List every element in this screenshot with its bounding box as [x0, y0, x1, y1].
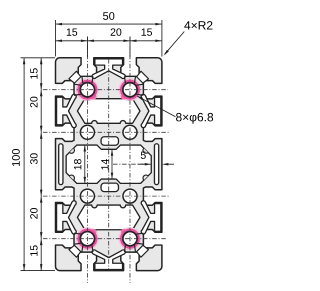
dimension chain 15/20/15 top — [56, 40, 162, 42]
centerline vertical x=35 — [129, 37, 131, 284]
annotation 8x6.8 — [138, 96, 176, 117]
hole phi6.8 at (15,85) with pink highlight — [74, 228, 98, 252]
centerline vertical x=15 — [86, 37, 88, 284]
hole phi6.8 at (35,15) with pink highlight — [119, 76, 143, 100]
extension lines left — [21, 57, 56, 59]
rounded chamber above octagon (row 35) — [101, 137, 118, 146]
right-edge chamber y15-35 — [141, 94, 161, 127]
centerline horizontal y=238.68 — [43, 238, 166, 240]
corner chamfer channel top-right — [137, 71, 149, 83]
inter-row chamber rows15-35 — [77, 99, 140, 124]
left-edge chamber y15-35 — [57, 94, 77, 127]
rounded chamber below octagon (row 65) — [101, 183, 118, 192]
inter-row chamber rows65-85 — [77, 205, 140, 230]
centerline horizontal y=196.12 — [43, 195, 169, 197]
hole phi6.8 at (15,15) with pink highlight — [74, 76, 98, 100]
centerline horizontal y=132.28 — [43, 131, 169, 133]
hole phi6.8 at (15,65) — [80, 189, 94, 203]
central cavity octagon — [66, 145, 151, 183]
dimension 50 top — [56, 23, 162, 25]
bottom-center T-V chamber — [92, 250, 125, 270]
left mid-edge channel — [59, 144, 63, 185]
right mid-edge channel — [154, 144, 158, 185]
centerline vertical x=25 — [108, 59, 110, 269]
octagon chamfer notch 2 — [143, 148, 148, 153]
dimension chain 15/20/30/20/15 left — [40, 58, 42, 271]
octagon chamfer notch 4 — [69, 175, 74, 180]
hole phi6.8 at (15,35) — [80, 125, 94, 139]
corner chamfer channel bottom-right — [137, 245, 149, 257]
right-edge chamber y65-85 — [141, 201, 161, 234]
corner chamfer channel top-left — [69, 71, 81, 83]
dimension 14 — [111, 149, 113, 179]
octagon chamfer notch 3 — [143, 175, 148, 180]
centerline horizontal y=50 — [113, 163, 151, 165]
left-edge chamber y65-85 — [57, 201, 77, 234]
extension lines top — [55, 20, 57, 57]
dimension 18 — [84, 145, 86, 183]
octagon chamfer notch 1 — [69, 148, 74, 153]
aluminum extrusion profile 50x100 outer outline — [56, 58, 162, 271]
annotation 4xR2 — [165, 32, 185, 55]
hole phi6.8 at (35,85) with pink highlight — [119, 228, 143, 252]
hole phi6.8 at (35,35) — [123, 125, 137, 139]
top-center T-V chamber — [92, 59, 125, 79]
hole phi6.8 at (35,65) — [123, 189, 137, 203]
corner chamfer channel bottom-left — [69, 245, 81, 257]
centerline horizontal y=89.72 — [43, 89, 168, 91]
dimension 5 right — [138, 163, 145, 165]
dimension 100 left — [23, 58, 25, 271]
